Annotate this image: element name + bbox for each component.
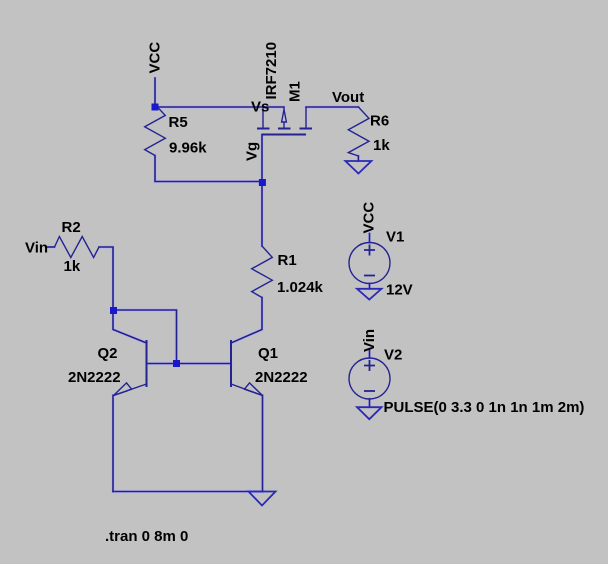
svg-text:V1: V1 bbox=[386, 229, 404, 246]
svg-text:VCC: VCC bbox=[361, 202, 378, 234]
svg-text:IRF7210: IRF7210 bbox=[263, 42, 280, 100]
svg-text:R2: R2 bbox=[62, 219, 81, 236]
svg-text:R1: R1 bbox=[278, 252, 297, 269]
svg-text:1k: 1k bbox=[64, 258, 81, 275]
svg-text:1k: 1k bbox=[373, 137, 390, 154]
svg-text:PULSE(0 3.3 0 1n 1n 1m 2m): PULSE(0 3.3 0 1n 1n 1m 2m) bbox=[384, 399, 585, 416]
svg-text:9.96k: 9.96k bbox=[169, 140, 207, 157]
svg-text:Vin: Vin bbox=[25, 240, 48, 257]
svg-text:VCC: VCC bbox=[147, 42, 164, 74]
svg-text:12V: 12V bbox=[386, 282, 413, 299]
svg-text:2N2222: 2N2222 bbox=[255, 369, 308, 386]
svg-text:Q2: Q2 bbox=[98, 345, 118, 362]
svg-text:Vg: Vg bbox=[244, 142, 261, 161]
svg-text:Vs: Vs bbox=[251, 99, 269, 116]
svg-text:Vin: Vin bbox=[361, 329, 378, 352]
svg-text:R6: R6 bbox=[370, 112, 389, 129]
svg-text:R5: R5 bbox=[169, 114, 188, 131]
svg-text:Q1: Q1 bbox=[258, 345, 278, 362]
svg-text:V2: V2 bbox=[384, 347, 402, 364]
svg-text:2N2222: 2N2222 bbox=[68, 369, 121, 386]
svg-text:1.024k: 1.024k bbox=[277, 279, 324, 296]
svg-text:Vout: Vout bbox=[332, 89, 364, 106]
svg-text:M1: M1 bbox=[287, 81, 304, 102]
svg-text:.tran 0 8m 0: .tran 0 8m 0 bbox=[105, 528, 188, 545]
